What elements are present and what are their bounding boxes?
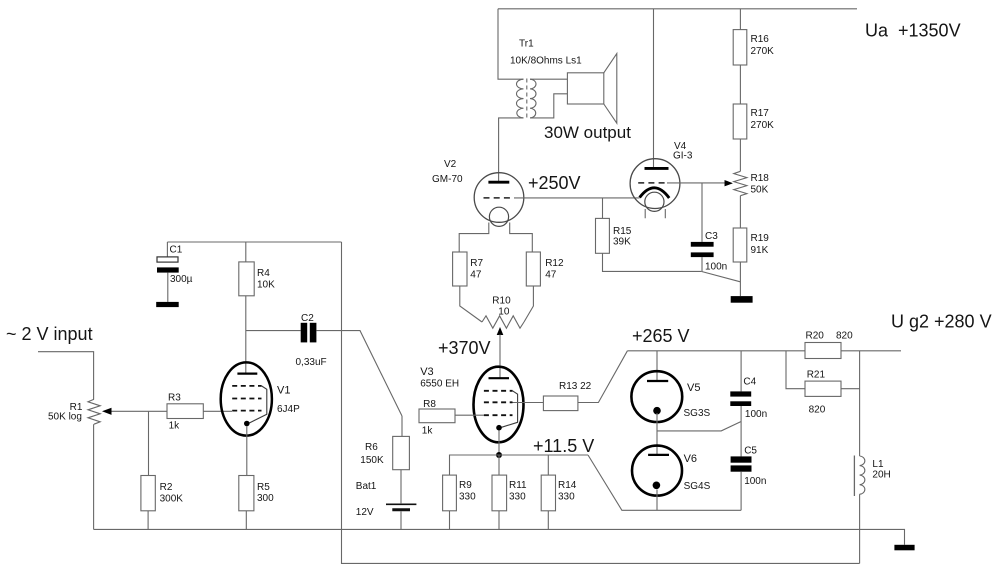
wire Ua +1350V top rail bbox=[498, 8, 857, 10]
wire diagonal to ground stub bbox=[701, 271, 740, 281]
svg-text:820: 820 bbox=[809, 405, 826, 416]
wire R8 to V3 grid bbox=[455, 414, 484, 416]
svg-text:R3: R3 bbox=[168, 393, 181, 404]
transformer Tr1 bbox=[510, 39, 582, 119]
wire +265V rail to C4 bbox=[740, 351, 742, 392]
svg-text:~ 2 V input: ~ 2 V input bbox=[6, 324, 93, 344]
resistor R6 bbox=[360, 436, 409, 469]
wire +265V rail bbox=[627, 350, 805, 352]
wire R8 junction to R6 bbox=[401, 416, 403, 436]
resistor R20 bbox=[805, 331, 853, 359]
svg-text:150K: 150K bbox=[360, 455, 384, 466]
resistor R16 bbox=[733, 30, 774, 65]
wire +250V tee to R15 bbox=[602, 198, 604, 219]
resistor R13 bbox=[543, 381, 591, 411]
wiper arrow of R18 bbox=[725, 180, 733, 186]
capacitor C3 bbox=[691, 231, 727, 273]
wire R16 to R17 bbox=[739, 65, 741, 104]
resistor R21 bbox=[805, 370, 841, 416]
svg-text:L1: L1 bbox=[872, 459, 884, 470]
wire R21 right to L1 branch bbox=[841, 388, 860, 390]
wire R12 down to R10 bbox=[524, 286, 533, 322]
svg-text:300K: 300K bbox=[160, 494, 184, 505]
wire rail after R20 bbox=[841, 350, 901, 352]
svg-text:100n: 100n bbox=[705, 262, 727, 273]
svg-text:C5: C5 bbox=[744, 446, 757, 457]
svg-text:R6: R6 bbox=[365, 442, 378, 453]
ground bottom right bbox=[894, 545, 914, 551]
wire C1 to ground bbox=[167, 273, 169, 302]
svg-text:10K: 10K bbox=[257, 280, 275, 291]
wire R4 bottom to V1 plate bbox=[245, 296, 247, 374]
svg-text:Bat1: Bat1 bbox=[356, 481, 377, 492]
svg-text:R12: R12 bbox=[545, 258, 564, 269]
svg-text:V1: V1 bbox=[277, 385, 290, 397]
resistor R17 bbox=[733, 104, 774, 139]
svg-text:100n: 100n bbox=[744, 476, 766, 487]
svg-text:0,33uF: 0,33uF bbox=[296, 357, 327, 368]
wire R7 down to R10 bbox=[460, 286, 482, 322]
svg-text:V2: V2 bbox=[444, 159, 457, 170]
inductor L1 20H bbox=[854, 456, 890, 497]
svg-text:R13 22: R13 22 bbox=[559, 381, 592, 392]
wire top-left +280V rail bbox=[167, 241, 341, 243]
svg-text:R10: R10 bbox=[492, 296, 511, 307]
wire +265V to V5 plate bbox=[656, 351, 658, 381]
svg-text:47: 47 bbox=[470, 270, 482, 281]
svg-text:R14: R14 bbox=[558, 480, 577, 491]
svg-text:R19: R19 bbox=[751, 233, 770, 244]
svg-text:R2: R2 bbox=[160, 482, 173, 493]
svg-text:R11: R11 bbox=[509, 480, 527, 491]
svg-text:91K: 91K bbox=[751, 245, 769, 256]
svg-text:820: 820 bbox=[836, 331, 853, 342]
tube V1 6J4P bbox=[221, 362, 300, 435]
wire input to R1 bbox=[38, 352, 94, 400]
wire +11.5V diagonal to V6 bottom bbox=[588, 455, 741, 510]
svg-text:V5: V5 bbox=[687, 382, 700, 394]
wire R1 wiper to R3 bbox=[112, 410, 168, 412]
potentiometer R10 bbox=[482, 296, 524, 336]
capacitor C1 bbox=[157, 242, 193, 285]
svg-text:R8: R8 bbox=[423, 399, 436, 410]
wire R18 to R19 bbox=[739, 196, 741, 228]
tube V3 6550EH bbox=[420, 366, 523, 442]
svg-text:270K: 270K bbox=[751, 46, 775, 57]
resistor R2 bbox=[141, 476, 183, 511]
tube V5 SG3S bbox=[631, 371, 710, 422]
wire primary bottom to V2 plate bbox=[499, 118, 524, 182]
svg-text:1k: 1k bbox=[422, 426, 434, 437]
wire R6 to battery bbox=[400, 470, 402, 504]
svg-text:R18: R18 bbox=[751, 173, 770, 184]
wire secondary bottom to speaker bbox=[530, 94, 567, 118]
svg-text:270K: 270K bbox=[751, 120, 775, 131]
resistor R3 bbox=[167, 393, 203, 432]
capacitor C5 bbox=[731, 446, 767, 488]
wire R17 to R18 bbox=[739, 139, 741, 171]
wire V3 g2 to R13 bbox=[513, 402, 544, 404]
wire C4 to C5 bbox=[740, 406, 742, 456]
resistor R15 bbox=[596, 218, 632, 253]
node +11.5V junction dot bbox=[496, 452, 502, 458]
wire R15 bottom to C3 bottom bbox=[603, 253, 702, 271]
wire R2 bottom bbox=[147, 511, 149, 530]
wire V1 cathode to R5 bbox=[246, 426, 248, 475]
svg-text:39K: 39K bbox=[613, 237, 631, 248]
svg-text:C1: C1 bbox=[170, 245, 183, 256]
svg-text:R17: R17 bbox=[751, 108, 770, 119]
svg-text:R20: R20 bbox=[806, 331, 825, 342]
wire R3 to V1 grid bbox=[203, 410, 232, 412]
svg-text:GM-70: GM-70 bbox=[432, 174, 463, 185]
svg-text:330: 330 bbox=[459, 492, 476, 503]
svg-text:C2: C2 bbox=[301, 313, 314, 324]
svg-text:100n: 100n bbox=[745, 409, 767, 420]
wire rail tee to R4 bbox=[245, 242, 247, 262]
svg-text:300: 300 bbox=[257, 493, 274, 504]
svg-text:U g2 +280 V: U g2 +280 V bbox=[891, 312, 992, 332]
svg-text:R15: R15 bbox=[613, 226, 632, 237]
resistor R12 bbox=[526, 252, 564, 286]
svg-text:R9: R9 bbox=[459, 480, 472, 491]
svg-text:Ua +1350V: Ua +1350V bbox=[865, 21, 961, 41]
battery Bat1 12V bbox=[356, 481, 417, 518]
svg-text:R7: R7 bbox=[470, 258, 483, 269]
wire secondary top to speaker bbox=[530, 78, 567, 80]
wire L1 bottom to bottom rail bbox=[859, 494, 861, 563]
svg-text:C4: C4 bbox=[743, 377, 756, 388]
ground below R19 bbox=[731, 296, 753, 303]
tube V2 GM-70 bbox=[432, 159, 524, 226]
capacitor C4 bbox=[730, 377, 767, 421]
svg-text:50K log: 50K log bbox=[48, 412, 82, 423]
svg-text:50K: 50K bbox=[751, 185, 769, 196]
ground below C1 bbox=[156, 302, 179, 307]
wire C2 right diagonal down to R8 junction bbox=[316, 331, 402, 416]
resistor R19 bbox=[733, 228, 769, 262]
wire tee down to R2 bbox=[148, 411, 150, 475]
potentiometer R1 bbox=[48, 399, 112, 424]
svg-text:12V: 12V bbox=[356, 507, 374, 518]
svg-text:R21: R21 bbox=[807, 370, 826, 381]
tube V6 SG4S bbox=[632, 446, 711, 496]
svg-text:6J4P: 6J4P bbox=[277, 404, 300, 415]
resistor R8 bbox=[419, 399, 455, 437]
wire V4 grid to R18 wiper arrow bbox=[667, 182, 725, 184]
resistor R14 bbox=[541, 475, 577, 511]
wire R21 branch from rail bbox=[786, 351, 805, 389]
tube V4 GI-3 bbox=[630, 141, 693, 218]
wire R1 bottom to ground rail bbox=[93, 424, 95, 529]
svg-text:1k: 1k bbox=[169, 421, 181, 432]
svg-text:+11.5 V: +11.5 V bbox=[533, 436, 594, 456]
wire C3 branch from V4 grid wire bbox=[701, 183, 703, 242]
wire V2 filament legs to R7 R12 bbox=[459, 223, 532, 253]
wire transformer primary drop from rail bbox=[498, 9, 524, 79]
wire R19 to ground bbox=[739, 262, 741, 296]
svg-text:47: 47 bbox=[545, 270, 557, 281]
svg-text:+370V: +370V bbox=[438, 338, 491, 358]
wire battery to ground rail bbox=[400, 511, 402, 529]
wire V6 bottom bbox=[656, 490, 658, 511]
svg-text:V6: V6 bbox=[684, 453, 697, 465]
svg-text:10: 10 bbox=[498, 307, 510, 318]
svg-text:V3: V3 bbox=[420, 366, 433, 378]
svg-text:R4: R4 bbox=[257, 268, 270, 279]
wire ground rail bbox=[94, 529, 905, 544]
wire resistor bottoms to ground rail bbox=[450, 511, 549, 530]
wire R10 wiper to V3 plate bbox=[499, 335, 501, 379]
svg-text:SG3S: SG3S bbox=[684, 408, 711, 419]
resistor R5 bbox=[239, 476, 274, 511]
wire V4 plate drop from rail bbox=[653, 9, 655, 169]
wire V2 grid to V4 cathode (+250V node) bbox=[514, 197, 640, 199]
svg-text:330: 330 bbox=[558, 492, 575, 503]
resistor R7 bbox=[453, 252, 484, 286]
svg-text:R5: R5 bbox=[257, 482, 270, 493]
wire +11.5V rail bbox=[450, 455, 589, 475]
wire rail to R16 bbox=[739, 9, 741, 30]
svg-text:SG4S: SG4S bbox=[684, 481, 711, 492]
wire long vertical right of V1 down to bottom rail bbox=[342, 242, 860, 563]
svg-text:6550 EH: 6550 EH bbox=[420, 379, 459, 390]
svg-text:GI-3: GI-3 bbox=[673, 151, 693, 162]
svg-text:+250V: +250V bbox=[528, 173, 581, 193]
svg-text:330: 330 bbox=[509, 492, 526, 503]
svg-text:R16: R16 bbox=[751, 34, 770, 45]
wire C2 left bbox=[246, 330, 301, 332]
svg-text:20H: 20H bbox=[872, 470, 890, 481]
wire V5-V6 junction to C4-C5 junction bbox=[657, 422, 741, 431]
resistor R4 bbox=[239, 262, 275, 296]
wire rail down to L1 bbox=[859, 351, 861, 456]
speaker Ls1 bbox=[544, 54, 631, 142]
potentiometer R18 bbox=[725, 171, 770, 195]
wire V3 cathode to +11.5V node bbox=[498, 431, 500, 456]
resistor R11 bbox=[492, 475, 527, 511]
svg-text:Tr1: Tr1 bbox=[519, 39, 534, 50]
svg-text:C3: C3 bbox=[705, 231, 718, 242]
svg-text:30W output: 30W output bbox=[544, 123, 631, 142]
svg-text:10K/8Ohms Ls1: 10K/8Ohms Ls1 bbox=[510, 56, 582, 67]
resistor R9 bbox=[443, 475, 477, 511]
svg-text:300µ: 300µ bbox=[170, 274, 193, 285]
wire V5 to V6 bbox=[656, 413, 658, 455]
wire C3 to bottom junction bbox=[701, 257, 703, 271]
svg-text:+265 V: +265 V bbox=[632, 326, 690, 346]
wire R13 to +265V rail (diagonal) bbox=[578, 351, 628, 403]
wire R5 bottom bbox=[245, 511, 247, 530]
capacitor C2 bbox=[296, 313, 327, 368]
wire C5 bottom bbox=[740, 472, 742, 511]
